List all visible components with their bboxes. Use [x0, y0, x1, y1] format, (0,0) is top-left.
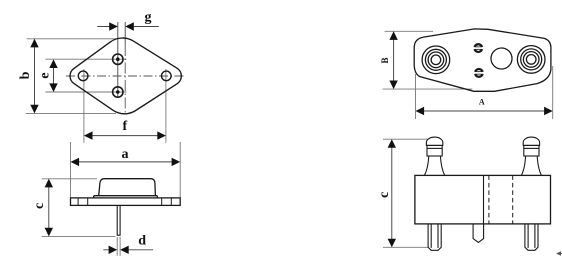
svg-text:d: d	[138, 234, 146, 249]
svg-text:e: e	[37, 72, 52, 78]
svg-text:c: c	[377, 192, 392, 198]
svg-text:a: a	[122, 147, 129, 162]
svg-text:c: c	[32, 203, 47, 209]
svg-text:A: A	[479, 98, 485, 107]
svg-text:f: f	[122, 119, 127, 134]
svg-text:b: b	[18, 71, 33, 79]
svg-text:B: B	[380, 57, 390, 63]
svg-text:g: g	[145, 10, 152, 25]
